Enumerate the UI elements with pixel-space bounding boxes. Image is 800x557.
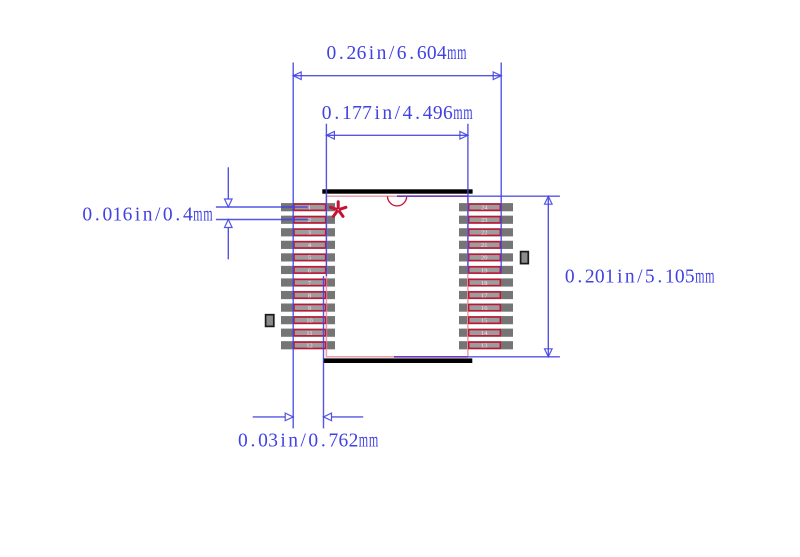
extension line top body edge (blue) [468, 195, 560, 197]
svg-text:3: 3 [308, 230, 311, 237]
dimension line 0.177in [326, 134, 468, 136]
arrowhead bottom of 0.201in dimension [545, 349, 553, 357]
dimension text 0.03in/0.762mm [238, 431, 378, 452]
arrowhead left of 0.03in dimension [285, 413, 293, 421]
pin numbers left 1-12 [306, 205, 313, 350]
svg-text:m: m [463, 103, 472, 124]
svg-text:n: n [377, 43, 387, 64]
svg-text:n: n [382, 103, 392, 124]
arrowhead right of 0.26in dimension [493, 72, 501, 80]
svg-text:4: 4 [423, 103, 433, 124]
dimension text 0.016in/0.4mm [82, 204, 212, 225]
svg-text:i: i [617, 267, 623, 288]
pad 7 copper land (left) [281, 278, 335, 286]
extension line pin1 center [216, 206, 308, 208]
lead outline pin 8 (left) [294, 292, 326, 298]
svg-text:0: 0 [102, 204, 112, 225]
lead outline pin 19 (right) [469, 267, 501, 273]
svg-text:.: . [415, 103, 420, 124]
svg-text:10: 10 [306, 317, 313, 324]
svg-text:1: 1 [342, 103, 352, 124]
svg-text:6: 6 [357, 43, 367, 64]
svg-text:22: 22 [481, 230, 488, 237]
svg-text:2: 2 [585, 267, 595, 288]
svg-text:0: 0 [675, 267, 685, 288]
lead outline pin 17 (right) [469, 292, 501, 298]
extension line right body edge (x=468) [467, 124, 469, 274]
pad 5 copper land (left) [281, 253, 335, 261]
svg-text:n: n [625, 267, 635, 288]
svg-text:6: 6 [443, 103, 453, 124]
svg-text:/: / [637, 267, 643, 288]
svg-text:1: 1 [308, 205, 311, 212]
dimension tail right of 0.03in [332, 416, 364, 418]
extension line lead inner edge (x=323.5) [323, 276, 325, 428]
svg-text:7: 7 [352, 103, 362, 124]
svg-text:2: 2 [347, 43, 357, 64]
pad 11 copper land (left) [281, 329, 335, 337]
lead outline pin 14 (right) [469, 330, 501, 336]
svg-text:m: m [359, 431, 368, 452]
pad 23 copper land (right) [459, 216, 513, 224]
pad 22 copper land (right) [459, 228, 513, 236]
lead outline pin 18 (right) [469, 279, 501, 285]
svg-text:7: 7 [329, 431, 339, 452]
svg-text:6: 6 [417, 43, 427, 64]
lead outline pin 20 (right) [469, 254, 501, 260]
svg-text:18: 18 [481, 280, 488, 287]
arrowhead left of 0.177in dimension [326, 132, 334, 140]
pad 20 copper land (right) [459, 253, 513, 261]
svg-text:23: 23 [481, 217, 488, 224]
svg-text:1: 1 [113, 204, 123, 225]
svg-text:.: . [251, 431, 256, 452]
extension line left body edge (x=326) [325, 124, 327, 276]
svg-text:0: 0 [326, 43, 336, 64]
pin 1 marker asterisk [331, 202, 346, 217]
svg-text:2: 2 [349, 431, 359, 452]
pin numbers right 24-13 [481, 205, 488, 350]
arrowhead upper of 0.016in dimension [225, 199, 233, 207]
svg-text:12: 12 [306, 343, 313, 350]
svg-text:m: m [193, 204, 202, 225]
svg-text:8: 8 [308, 292, 311, 299]
svg-text:0: 0 [565, 267, 575, 288]
lead outline pin 7 (left) [294, 279, 326, 285]
svg-text:m: m [447, 43, 456, 64]
svg-text:.: . [339, 43, 344, 64]
svg-text:14: 14 [481, 330, 488, 337]
arrowhead left of 0.26in dimension [293, 72, 301, 80]
svg-text:4: 4 [403, 103, 413, 124]
svg-text:7: 7 [362, 103, 372, 124]
svg-text:13: 13 [481, 343, 488, 350]
pad 21 copper land (right) [459, 241, 513, 249]
pad 17 copper land (right) [459, 291, 513, 299]
svg-text:0: 0 [163, 204, 173, 225]
svg-text:0: 0 [427, 43, 437, 64]
svg-text:5: 5 [685, 267, 695, 288]
lead outline pin 9 (left) [294, 305, 326, 311]
svg-text:1: 1 [665, 267, 675, 288]
svg-text:.: . [321, 431, 326, 452]
extension line pin2 center [216, 219, 308, 221]
svg-text:21: 21 [481, 242, 488, 249]
dimension tail above 0.016in [227, 167, 229, 199]
pad 9 copper land (left) [281, 304, 335, 312]
svg-text:0: 0 [238, 431, 248, 452]
pad 1 copper land (left) [281, 203, 335, 211]
svg-text:/: / [155, 204, 161, 225]
pad 3 copper land (left) [281, 228, 335, 236]
lead outline pin 21 (right) [469, 242, 501, 248]
svg-text:6: 6 [339, 431, 349, 452]
svg-text:.: . [409, 43, 414, 64]
pad 15 copper land (right) [459, 316, 513, 324]
extension line bottom body edge (blue) [468, 356, 560, 358]
pad 2 copper land (left) [281, 216, 335, 224]
pad 4 copper land (left) [281, 241, 335, 249]
lead outline pin 22 (right) [469, 229, 501, 235]
svg-text:0: 0 [82, 204, 92, 225]
dimension tail below 0.016in [227, 228, 229, 260]
svg-text:9: 9 [433, 103, 443, 124]
extension line bottom body edge overlapping body outline (purple) [394, 356, 468, 358]
svg-text:0: 0 [308, 431, 318, 452]
extension line top body edge overlapping body outline (purple) [397, 195, 468, 197]
pad 12 copper land (left) [281, 341, 335, 349]
lead outline pin 11 (left) [294, 330, 326, 336]
extension line left edge of leads (x=293) [292, 63, 294, 429]
svg-text:6: 6 [123, 204, 133, 225]
pad 6 copper land (left) [281, 266, 335, 274]
lead outline pin 10 (left) [294, 317, 326, 323]
pad 8 copper land (left) [281, 291, 335, 299]
svg-text:i: i [280, 431, 286, 452]
svg-text:0: 0 [258, 431, 268, 452]
lead outline pin 15 (right) [469, 317, 501, 323]
top silkscreen bar [322, 189, 472, 193]
svg-text:n: n [288, 431, 298, 452]
pad 16 copper land (right) [459, 304, 513, 312]
svg-text:.: . [657, 267, 662, 288]
svg-text:4: 4 [437, 43, 447, 64]
svg-text:16: 16 [481, 305, 488, 312]
svg-text:.: . [95, 204, 100, 225]
pad 14 copper land (right) [459, 329, 513, 337]
lead outline pin 6 (left) [294, 267, 326, 273]
arrowhead right of 0.03in dimension [324, 413, 332, 421]
svg-text:.: . [577, 267, 582, 288]
dimension tail left of 0.03in [253, 416, 286, 418]
svg-text:5: 5 [308, 255, 311, 262]
extension line right edge of leads (x=501) [500, 63, 502, 274]
lead outline pin 16 (right) [469, 305, 501, 311]
svg-text:.: . [175, 204, 180, 225]
svg-text:i: i [135, 204, 141, 225]
svg-text:9: 9 [308, 305, 311, 312]
svg-text:m: m [695, 267, 704, 288]
svg-text:0: 0 [595, 267, 605, 288]
svg-text:0: 0 [322, 103, 332, 124]
lead outline pin 1 (left) [294, 204, 326, 210]
svg-text:m: m [457, 43, 466, 64]
svg-text:/: / [301, 431, 307, 452]
lead outline pin 3 (left) [294, 229, 326, 235]
lead outline pin 2 (left) [294, 217, 326, 223]
pin-1 end notch (index semicircle) [388, 196, 407, 206]
lead outline pin 13 (right) [469, 342, 501, 348]
svg-text:1: 1 [605, 267, 615, 288]
svg-text:20: 20 [481, 255, 488, 262]
lead outline pin 12 (left) [294, 342, 326, 348]
svg-text:17: 17 [481, 292, 488, 299]
svg-text:3: 3 [268, 431, 278, 452]
component body outline [326, 196, 468, 357]
pad 13 copper land (right) [459, 341, 513, 349]
svg-text:2: 2 [308, 217, 311, 224]
svg-text:i: i [369, 43, 375, 64]
dimension text 0.201in/5.105mm [565, 267, 715, 288]
lead outline pin 5 (left) [294, 254, 326, 260]
svg-text:.: . [334, 103, 339, 124]
svg-text:15: 15 [481, 317, 488, 324]
svg-text:24: 24 [481, 205, 488, 212]
svg-text:n: n [143, 204, 153, 225]
dimension text 0.177in/4.496mm [322, 103, 473, 124]
arrowhead lower of 0.016in dimension [225, 220, 233, 228]
arrowhead top of 0.201in dimension [545, 196, 553, 204]
orientation marker rectangle (left) [266, 315, 274, 327]
dimension line 0.26in [293, 75, 501, 77]
arrowhead right of 0.177in dimension [460, 132, 468, 140]
svg-text:/: / [395, 103, 401, 124]
svg-text:6: 6 [397, 43, 407, 64]
pad 19 copper land (right) [459, 266, 513, 274]
svg-text:11: 11 [306, 330, 312, 337]
bottom silkscreen bar [323, 358, 472, 363]
pad 10 copper land (left) [281, 316, 335, 324]
pad 18 copper land (right) [459, 278, 513, 286]
svg-text:m: m [203, 204, 212, 225]
svg-text:m: m [705, 267, 714, 288]
lead outline pin 4 (left) [294, 242, 326, 248]
svg-text:5: 5 [645, 267, 655, 288]
svg-text:4: 4 [183, 204, 193, 225]
lead outline pin 24 (right) [469, 204, 501, 210]
svg-text:i: i [374, 103, 380, 124]
svg-text:/: / [389, 43, 395, 64]
dimension line 0.201in [547, 196, 549, 357]
svg-text:m: m [369, 431, 378, 452]
lead outline pin 23 (right) [469, 217, 501, 223]
orientation marker rectangle (right) [521, 252, 529, 264]
pad 24 copper land (right) [459, 203, 513, 211]
svg-text:19: 19 [481, 267, 488, 274]
dimension text 0.26in/6.604mm [326, 43, 466, 64]
svg-text:m: m [453, 103, 462, 124]
